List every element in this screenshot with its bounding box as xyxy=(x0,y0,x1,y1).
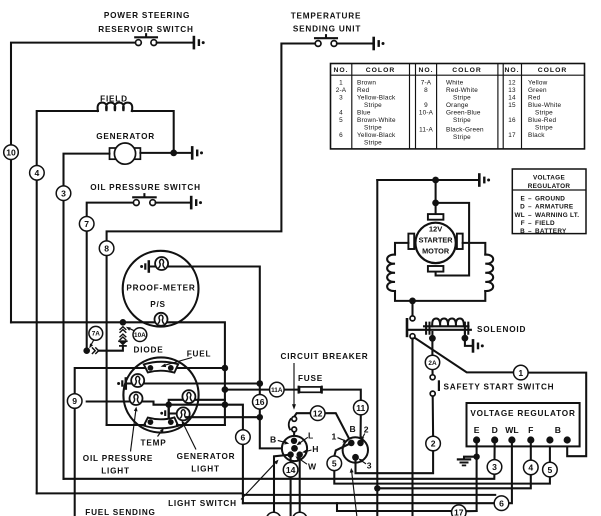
field coil xyxy=(98,103,133,111)
svg-text:11: 11 xyxy=(356,403,365,413)
svg-text:LIGHT SWITCH: LIGHT SWITCH xyxy=(168,499,237,508)
solenoid moving contact (upper) xyxy=(410,316,415,321)
svg-text:7: 7 xyxy=(84,219,89,229)
svg-text:GENERATOR: GENERATOR xyxy=(96,132,155,141)
wire: right coil to right brush xyxy=(463,243,486,255)
svg-text:WL: WL xyxy=(514,212,525,219)
svg-text:TEMPERATURE: TEMPERATURE xyxy=(291,12,362,21)
light switch terminal B (center) xyxy=(291,445,298,452)
wire E: regulator ground and tail xyxy=(476,440,478,511)
fuse xyxy=(299,386,322,394)
svg-text:COLOR: COLOR xyxy=(452,67,482,74)
svg-text:POWER STEERING: POWER STEERING xyxy=(104,11,190,20)
wire 1: solenoid contact to regulator B terminal xyxy=(415,338,587,457)
svg-text:COLOR: COLOR xyxy=(366,67,396,74)
svg-text:–: – xyxy=(528,220,532,227)
svg-text:SAFETY START SWITCH: SAFETY START SWITCH xyxy=(444,382,555,391)
svg-text:F: F xyxy=(528,425,533,435)
svg-text:Yellow-Black: Yellow-Black xyxy=(357,95,396,102)
svg-text:W: W xyxy=(308,461,317,471)
regulator terminal studs xyxy=(473,436,480,443)
circled wire number 3 (regulator side) xyxy=(487,460,502,475)
lamp: generator light bulb xyxy=(182,390,195,403)
oil pressure switch xyxy=(133,194,190,205)
svg-text:VOLTAGE REGULATOR: VOLTAGE REGULATOR xyxy=(470,409,575,418)
proof-meter housing xyxy=(123,251,199,327)
ignition switch label 2 xyxy=(361,425,369,441)
svg-text:2: 2 xyxy=(431,439,436,449)
lamp: cluster lower-right bulb xyxy=(177,407,190,420)
svg-text:NO.: NO. xyxy=(504,67,519,74)
svg-text:–: – xyxy=(528,228,532,235)
svg-text:4: 4 xyxy=(35,168,40,178)
svg-text:Red-White: Red-White xyxy=(446,87,478,94)
svg-text:–: – xyxy=(528,195,532,202)
light switch label W xyxy=(296,456,318,471)
ground (power steering switch) xyxy=(194,36,205,50)
svg-text:SENDING UNIT: SENDING UNIT xyxy=(293,25,361,34)
svg-text:D: D xyxy=(492,425,498,435)
svg-text:Stripe: Stripe xyxy=(535,110,553,117)
ignition switch terminal 1 xyxy=(348,440,355,447)
connector chevrons (7A) xyxy=(92,347,99,354)
instrument cluster housing xyxy=(123,357,198,432)
wire: generator lamp loop xyxy=(169,400,225,405)
wire: battery cable drop from solenoid contact xyxy=(411,339,413,516)
svg-text:4: 4 xyxy=(528,463,533,473)
junction: ground tap xyxy=(166,402,172,408)
ground (starter motor) xyxy=(479,173,490,187)
svg-text:White: White xyxy=(446,80,464,87)
svg-text:Stripe: Stripe xyxy=(535,125,553,132)
svg-text:PROOF-METER: PROOF-METER xyxy=(126,284,195,293)
svg-text:B: B xyxy=(555,425,561,435)
solenoid contact bar xyxy=(406,318,409,337)
pointer: fuel label to gauge xyxy=(161,358,193,368)
svg-text:L: L xyxy=(308,431,313,441)
svg-text:Stripe: Stripe xyxy=(453,134,471,141)
svg-text:FUEL: FUEL xyxy=(187,350,212,359)
svg-text:5: 5 xyxy=(548,465,553,475)
svg-text:2-A: 2-A xyxy=(336,87,347,94)
svg-text:BATTERY: BATTERY xyxy=(535,228,567,235)
wire: solenoid contact feed xyxy=(411,301,413,316)
junction: wire 11A on line-1 xyxy=(222,386,229,393)
wire: field bus (from field coil drop) xyxy=(37,493,496,495)
connector circle (cut at bottom edge, left) xyxy=(266,512,280,516)
svg-text:9: 9 xyxy=(424,102,428,109)
junction: solenoid coil right lead xyxy=(462,335,469,342)
svg-text:B: B xyxy=(350,424,356,434)
circled wire number 1 xyxy=(514,365,529,380)
connector chevrons above diode (10A) xyxy=(120,327,127,341)
power steering reservoir switch xyxy=(135,34,193,45)
wire 11A: line-1 to fuse to ignition terminal 2 xyxy=(225,390,361,443)
svg-text:TEMP: TEMP xyxy=(141,439,167,448)
voltage regulator box xyxy=(467,403,580,446)
circled wire number 2A xyxy=(425,355,439,369)
circled wire number 5 (ignition side) xyxy=(327,456,342,471)
wire 5: ignition terminal 1 to bus xyxy=(334,440,550,483)
wire 4: field coil left leg xyxy=(37,111,98,493)
temperature sending unit switch xyxy=(315,35,373,46)
generator xyxy=(110,143,141,164)
svg-text:9: 9 xyxy=(72,396,77,406)
junction: F bus on battery drop xyxy=(374,485,380,491)
svg-text:WL: WL xyxy=(505,425,518,435)
pointer: temp label to gauge xyxy=(158,428,164,437)
voltage regulator legend box xyxy=(512,169,586,235)
svg-text:12: 12 xyxy=(313,408,323,418)
pointer: generator light label to bulb xyxy=(182,420,197,449)
light switch terminal H (bottom-right) xyxy=(297,451,303,457)
starter left field coil xyxy=(387,255,395,291)
svg-text:Black: Black xyxy=(528,132,545,139)
svg-text:F: F xyxy=(521,220,525,227)
svg-text:1: 1 xyxy=(339,80,343,87)
svg-text:11-A: 11-A xyxy=(419,127,433,134)
wire 2: ignition terminal 3 to safety start switch xyxy=(356,396,434,473)
svg-text:FIELD: FIELD xyxy=(535,220,555,227)
ignition switch terminal 2 xyxy=(357,440,364,447)
svg-text:Brown-White: Brown-White xyxy=(357,117,396,124)
wire 6: regulator WL bus xyxy=(243,440,512,503)
svg-text:E: E xyxy=(474,425,480,435)
junction on line-2 xyxy=(257,414,263,420)
svg-text:1: 1 xyxy=(518,368,523,378)
svg-text:Yellow-Black: Yellow-Black xyxy=(357,132,396,139)
lamp: oil pressure light bulb xyxy=(130,392,143,405)
circled wire number 11A xyxy=(270,382,285,397)
junction: diode tap on wire 10 xyxy=(120,319,127,326)
svg-text:3: 3 xyxy=(61,188,66,198)
ground (generator) xyxy=(192,146,203,160)
svg-text:17: 17 xyxy=(454,507,464,516)
wire: top junction down to armature loop xyxy=(435,180,437,214)
wire 9: fuel gauge feed xyxy=(75,368,225,516)
svg-text:ARMATURE: ARMATURE xyxy=(535,204,574,211)
wire 17: bottom bus xyxy=(337,503,477,511)
svg-text:4: 4 xyxy=(339,110,343,117)
wire: generator right to ground junction xyxy=(140,152,191,154)
svg-text:14: 14 xyxy=(286,465,296,475)
svg-text:5: 5 xyxy=(339,117,343,124)
wire 7: oil pressure switch feed xyxy=(87,203,134,351)
wire: light switch to bottom-left drop xyxy=(274,455,289,513)
ignition switch label 3 xyxy=(358,459,371,471)
svg-text:GROUND: GROUND xyxy=(535,195,565,202)
svg-text:RESERVOIR SWITCH: RESERVOIR SWITCH xyxy=(98,25,193,34)
solenoid contact (lower) xyxy=(410,334,415,339)
wire 3: generator left output xyxy=(64,154,110,479)
svg-text:Green-Blue: Green-Blue xyxy=(446,110,481,117)
light switch label H xyxy=(302,444,319,454)
circled wire number 17 xyxy=(452,505,467,516)
lamp: proof-meter upper bulb xyxy=(155,257,168,270)
svg-text:10: 10 xyxy=(6,147,16,157)
svg-text:10A: 10A xyxy=(134,332,146,339)
svg-text:13: 13 xyxy=(508,87,516,94)
svg-text:LIGHT: LIGHT xyxy=(191,465,220,474)
svg-text:Brown: Brown xyxy=(357,80,376,87)
junction: starter top xyxy=(432,177,439,184)
circled wire number 2 xyxy=(426,436,441,451)
fuel gauge xyxy=(144,362,178,373)
svg-text:8: 8 xyxy=(104,243,109,253)
connector circle (cut at bottom edge, right) xyxy=(293,512,307,516)
svg-text:Yellow: Yellow xyxy=(528,80,548,87)
svg-text:OIL PRESSURE SWITCH: OIL PRESSURE SWITCH xyxy=(90,183,201,192)
svg-text:VOLTAGE: VOLTAGE xyxy=(533,175,565,182)
svg-text:D: D xyxy=(520,204,525,211)
svg-text:NO.: NO. xyxy=(418,67,433,74)
temp gauge xyxy=(144,417,178,428)
svg-text:P/S: P/S xyxy=(150,300,166,309)
svg-text:WARNING LT.: WARNING LT. xyxy=(535,212,579,219)
ground (oil pressure switch) xyxy=(191,196,202,210)
ground (oil pressure warning lamp row) xyxy=(117,377,126,390)
svg-text:Stripe: Stripe xyxy=(364,140,382,147)
ground (temperature sending unit) xyxy=(374,37,385,51)
light switch label L xyxy=(297,431,314,446)
circled wire number 14 xyxy=(283,462,298,477)
svg-text:B: B xyxy=(270,435,276,445)
diode xyxy=(99,341,127,351)
svg-text:16: 16 xyxy=(255,397,265,407)
circled wire number 3 xyxy=(56,186,71,201)
wire: armature loop around right side to bottom brush xyxy=(436,203,470,276)
solenoid coil xyxy=(408,319,471,334)
wire 7A: oil pressure lamp feed with step to line-1 xyxy=(87,402,243,504)
wire: lower-right lamp to line-2 xyxy=(187,416,260,418)
starter motor brushes xyxy=(408,214,462,272)
junction: line-1 xyxy=(222,401,229,408)
svg-text:Orange: Orange xyxy=(446,102,469,109)
svg-text:6: 6 xyxy=(499,498,504,508)
lamp: cluster upper-left bulb xyxy=(131,374,144,387)
svg-text:DIODE: DIODE xyxy=(134,346,164,355)
circled wire number 10 xyxy=(4,145,19,160)
earth ground (regulator E) xyxy=(457,459,471,465)
power steering reservoir switch label xyxy=(98,11,193,34)
circled wire number 7 xyxy=(79,217,94,232)
wire 16: upper-left lamp to line-2 xyxy=(127,382,260,384)
safety start switch contacts xyxy=(430,375,439,396)
svg-text:E: E xyxy=(520,195,525,202)
svg-text:5: 5 xyxy=(332,459,337,469)
circled wire number 12 xyxy=(310,406,325,421)
svg-text:Green: Green xyxy=(528,87,547,94)
pointer: light switch label to switch xyxy=(241,460,279,500)
svg-text:6: 6 xyxy=(339,132,343,139)
pointer: ignition switch label (below edge) to switch xyxy=(350,468,357,516)
junction: solenoid coil left lead xyxy=(429,335,436,342)
svg-text:Red: Red xyxy=(528,95,541,102)
wire: temperature sending unit to corner x281 xyxy=(107,44,316,426)
svg-text:14: 14 xyxy=(508,95,516,102)
svg-text:8: 8 xyxy=(424,87,428,94)
svg-text:3: 3 xyxy=(367,461,372,471)
temperature sending unit label xyxy=(291,12,362,34)
light switch terminal W (bottom-left) xyxy=(287,451,293,457)
junction: solenoid tap on starter bottom xyxy=(409,298,416,305)
svg-text:OIL PRESSURE: OIL PRESSURE xyxy=(83,454,153,463)
svg-text:Black-Green: Black-Green xyxy=(446,127,484,134)
ground (proof-meter top lamp) xyxy=(140,260,149,273)
svg-text:12V: 12V xyxy=(429,225,443,234)
light switch housing xyxy=(282,436,307,461)
wire: starter motor top feed xyxy=(377,179,478,181)
svg-text:1: 1 xyxy=(332,432,337,442)
ignition switch label 1 xyxy=(332,432,348,443)
svg-text:FUSE: FUSE xyxy=(298,374,323,383)
circuit breaker contacts xyxy=(289,413,352,443)
svg-text:3: 3 xyxy=(339,95,343,102)
svg-text:CIRCUIT BREAKER: CIRCUIT BREAKER xyxy=(281,352,369,361)
svg-text:7A: 7A xyxy=(92,331,101,338)
circled wire number 6 (regulator side) xyxy=(494,496,509,511)
wire 4: regulator F bus xyxy=(377,440,531,488)
wire: field coil to generator junction xyxy=(132,111,174,153)
junction: armature tap xyxy=(432,200,439,207)
svg-text:SOLENOID: SOLENOID xyxy=(477,325,526,334)
circled connector number 7A xyxy=(89,326,103,348)
circled wire number 9 xyxy=(67,394,82,409)
svg-text:Blue-White: Blue-White xyxy=(528,102,562,109)
circled connector number 10A xyxy=(126,327,147,342)
circled wire number 6 (cluster side) xyxy=(236,430,251,445)
svg-text:Blue-Red: Blue-Red xyxy=(528,117,556,124)
svg-text:11A: 11A xyxy=(271,387,283,394)
svg-text:Stripe: Stripe xyxy=(453,95,471,102)
svg-text:STARTER: STARTER xyxy=(419,236,454,245)
circled wire number 4 (regulator side) xyxy=(524,460,539,475)
circled wire number 5 (regulator side) xyxy=(543,462,558,477)
pointer: circuit breaker label to breaker xyxy=(292,363,296,410)
wire 14: light switch W drop xyxy=(290,455,292,516)
circled wire number 16 xyxy=(252,395,267,410)
svg-text:16: 16 xyxy=(508,117,516,124)
wire 10 run: proof-meter lower lamp wire to cluster line-1 xyxy=(11,322,225,425)
ground (temp lamp) xyxy=(160,405,177,418)
svg-text:COLOR: COLOR xyxy=(538,67,568,74)
svg-text:LIGHT: LIGHT xyxy=(101,467,130,476)
wire: light switch H drop xyxy=(299,455,301,513)
junction: fuel wire on line-1 xyxy=(222,365,229,372)
starter right field coil xyxy=(485,255,493,291)
wire: starter bottom run xyxy=(395,291,485,301)
svg-text:17: 17 xyxy=(508,132,516,139)
svg-text:3: 3 xyxy=(492,462,497,472)
light switch label B xyxy=(270,435,289,445)
wire: battery main drop (starter top-left to bottom edge) xyxy=(376,180,378,516)
svg-text:REGULATOR: REGULATOR xyxy=(528,183,571,190)
wire: proof-meter top lamp feed to light switch B (line-2) xyxy=(150,267,282,449)
ignition switch housing xyxy=(343,437,368,462)
svg-text:Stripe: Stripe xyxy=(453,117,471,124)
svg-text:10-A: 10-A xyxy=(419,110,434,117)
svg-text:12: 12 xyxy=(508,80,516,87)
svg-text:NO.: NO. xyxy=(333,67,348,74)
svg-text:GENERATOR: GENERATOR xyxy=(177,452,236,461)
svg-text:Stripe: Stripe xyxy=(364,102,382,109)
svg-text:B: B xyxy=(520,228,525,235)
wire 2A: solenoid coil to safety start switch xyxy=(431,332,433,375)
wire 10: power steering feed (top-left corner run) xyxy=(11,43,136,323)
wire: left brush to left field coil xyxy=(395,243,408,255)
svg-text:7-A: 7-A xyxy=(421,80,432,87)
ground (solenoid) xyxy=(473,339,484,353)
pointer: oil pressure light label to bulb xyxy=(131,407,138,452)
svg-text:Stripe: Stripe xyxy=(364,125,382,132)
junction: 7A connector on wire 7 xyxy=(83,347,90,354)
junction: generator/field/ground xyxy=(170,150,177,157)
junction on line-2 xyxy=(257,380,264,387)
svg-text:MOTOR: MOTOR xyxy=(422,247,450,256)
circled wire number 11 xyxy=(354,400,369,415)
starter motor 12V xyxy=(415,223,455,263)
color code table xyxy=(331,64,585,149)
svg-text:Red: Red xyxy=(357,87,370,94)
wire 3: regulator D to generator bus xyxy=(64,440,495,479)
lamp: proof-meter lower bulb xyxy=(155,313,168,326)
light switch terminal L (top) xyxy=(291,438,297,444)
svg-text:FUEL SENDING: FUEL SENDING xyxy=(85,508,155,516)
svg-text:Blue: Blue xyxy=(357,110,371,117)
svg-text:2A: 2A xyxy=(428,360,437,367)
circled wire number 4 xyxy=(30,166,45,181)
svg-text:–: – xyxy=(528,212,532,219)
wire 8: temp gauge feed xyxy=(107,424,225,426)
svg-text:6: 6 xyxy=(241,432,246,442)
circled wire number 8 xyxy=(99,241,114,256)
ignition switch terminal 3 xyxy=(352,454,359,461)
svg-text:15: 15 xyxy=(508,102,516,109)
wire: solenoid coil right to ground xyxy=(465,332,472,346)
svg-text:H: H xyxy=(312,444,318,454)
svg-text:2: 2 xyxy=(364,425,369,435)
svg-text:–: – xyxy=(528,204,532,211)
